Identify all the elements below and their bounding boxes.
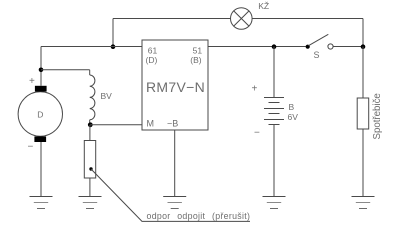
battery B 6V <box>264 98 284 125</box>
wire battery to ground <box>273 125 275 197</box>
ground (battery) <box>263 197 286 209</box>
lamp KZ <box>231 8 253 30</box>
load resistor Spotrebice <box>357 98 369 129</box>
wire regulator -B pin to ground <box>174 130 176 197</box>
callout leader dot on resistor <box>89 167 92 170</box>
switch S <box>306 34 334 49</box>
inductor BV coil <box>90 75 95 120</box>
wire load to ground <box>362 129 364 197</box>
svg-text:S: S <box>314 50 320 60</box>
motor D <box>18 86 62 142</box>
svg-text:odpor odpojit (přerušit): odpor odpojit (přerušit) <box>147 211 251 221</box>
svg-text:−: − <box>28 142 34 153</box>
node motor-coil junction dot <box>39 68 44 73</box>
label 6V <box>288 112 299 122</box>
pin label (B) <box>190 55 202 65</box>
ground (load) <box>352 197 375 209</box>
wire node B to resistor <box>89 125 91 141</box>
svg-text:Spotřebiče: Spotřebiče <box>372 93 383 139</box>
callout text odpor odpojit (prerusit) <box>147 211 251 221</box>
label KZ <box>258 1 269 11</box>
wire coil lead-in <box>89 70 91 75</box>
svg-text:BV: BV <box>101 91 113 101</box>
wire to coil horizontal <box>41 69 90 71</box>
pin label -B <box>167 119 178 129</box>
callout leader line <box>91 169 250 221</box>
label + (motor) <box>29 76 35 87</box>
resistor R1 (odpor) <box>84 141 95 179</box>
ground (resistor) <box>79 197 102 209</box>
label - (battery) <box>254 128 260 139</box>
wire top horizontal left (node to lamp) <box>113 18 231 20</box>
label + (battery) <box>252 84 258 95</box>
label BV <box>101 91 113 101</box>
wire motor branch vertical <box>40 47 42 86</box>
wire load top <box>362 47 364 99</box>
ground (-B pin) <box>163 197 186 209</box>
svg-text:(D): (D) <box>146 55 158 65</box>
svg-text:6V: 6V <box>288 112 299 122</box>
svg-text:M: M <box>147 119 155 129</box>
label D <box>37 109 43 119</box>
value label RM7V-N <box>146 79 205 95</box>
node B junction dot <box>88 122 93 127</box>
svg-text:61: 61 <box>148 46 158 56</box>
wire coil to node B <box>89 120 91 125</box>
svg-text:B: B <box>289 102 295 112</box>
node right junction dot <box>361 44 366 49</box>
wire battery top <box>273 47 275 98</box>
node A junction dot <box>111 44 116 49</box>
wire switch to right node <box>333 46 363 48</box>
pin label M <box>147 119 155 129</box>
wire main rail left (motor branch to regulator pin 61) <box>41 46 142 48</box>
label S <box>314 50 320 60</box>
wire motor to ground <box>40 142 42 197</box>
regulator U1 box RM7V-N <box>142 40 208 130</box>
svg-text:KŽ: KŽ <box>258 1 269 11</box>
wire node B to regulator pin M <box>90 124 142 126</box>
svg-text:51: 51 <box>193 46 203 56</box>
svg-text:RM7V−N: RM7V−N <box>146 79 205 95</box>
svg-text:−: − <box>254 128 260 139</box>
svg-text:−B: −B <box>167 119 178 129</box>
label Spotrebice <box>372 93 383 139</box>
svg-text:+: + <box>252 84 258 95</box>
svg-text:(B): (B) <box>190 55 202 65</box>
wire vertical from top rail to node A <box>112 19 114 47</box>
wire main rail right (regulator pin 51 to switch) <box>208 46 306 48</box>
label B <box>289 102 295 112</box>
svg-text:+: + <box>29 76 35 87</box>
svg-text:D: D <box>37 109 43 119</box>
node battery tap junction dot <box>272 44 277 49</box>
wire top horizontal right (lamp to right corner) <box>252 18 363 20</box>
wire resistor to ground <box>89 178 91 197</box>
label - (motor) <box>28 142 34 153</box>
pin label 51 <box>193 46 203 56</box>
ground (motor) <box>30 197 53 209</box>
pin label 61 <box>148 46 158 56</box>
pin label (D) <box>146 55 158 65</box>
wire right vertical drop to switch rail <box>362 19 364 47</box>
